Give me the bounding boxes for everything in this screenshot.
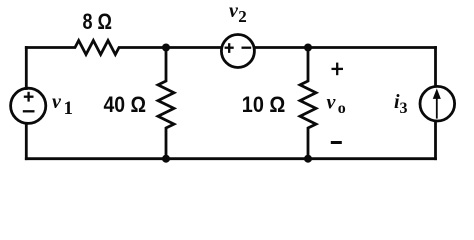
svg-text:10 Ω: 10 Ω — [242, 92, 285, 117]
svg-text:3: 3 — [400, 100, 408, 117]
svg-text:v: v — [327, 92, 337, 114]
svg-text:8 Ω: 8 Ω — [83, 9, 113, 34]
svg-text:1: 1 — [64, 98, 74, 119]
svg-text:v: v — [52, 91, 62, 113]
svg-text:40 Ω: 40 Ω — [104, 92, 147, 117]
svg-text:2: 2 — [238, 7, 247, 26]
svg-text:o: o — [338, 100, 346, 117]
